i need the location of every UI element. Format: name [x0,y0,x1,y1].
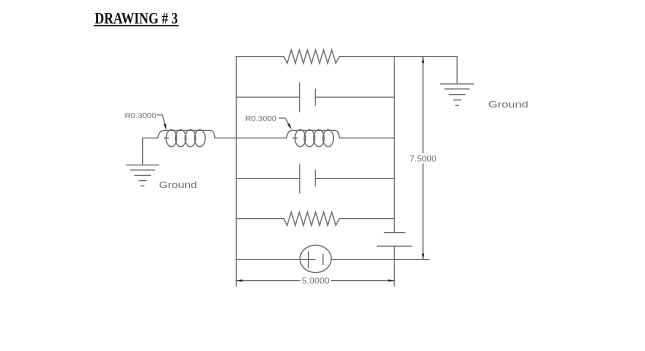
svg-text:R0.3000: R0.3000 [125,111,157,120]
svg-text:Ground: Ground [159,180,197,191]
svg-text:7.5000: 7.5000 [410,154,437,164]
svg-text:R0.3000: R0.3000 [245,114,276,123]
svg-text:5.0000: 5.0000 [302,276,330,286]
svg-text:Ground: Ground [488,100,528,111]
